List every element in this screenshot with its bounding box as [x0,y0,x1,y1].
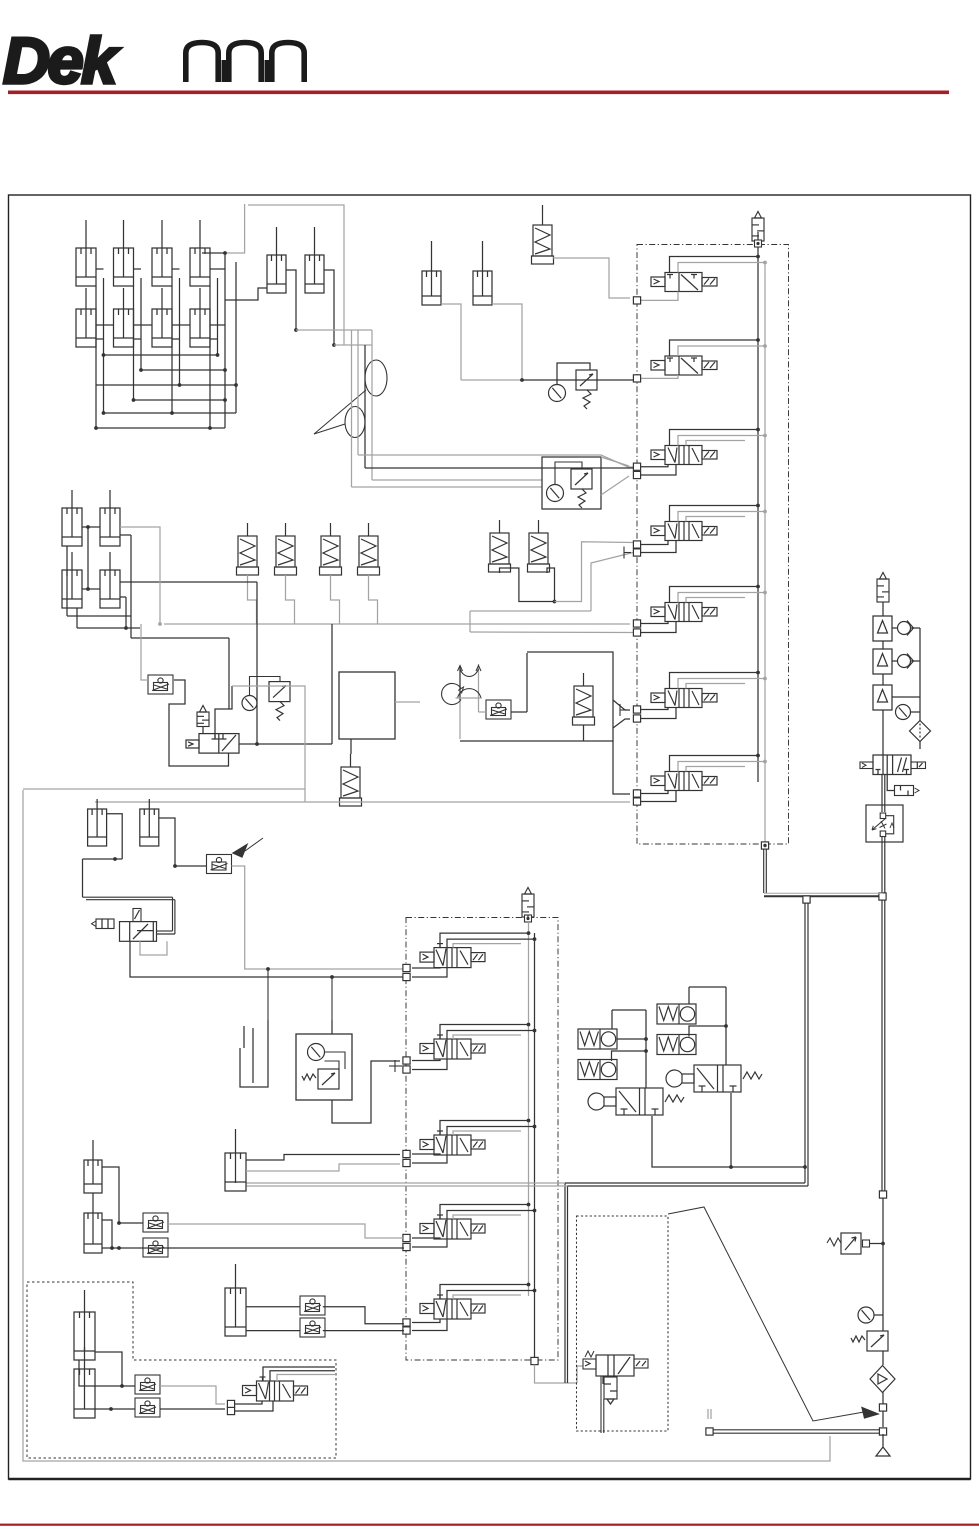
cylinder print head [225,1264,246,1336]
filter separator diamond [870,1366,895,1393]
vacuum switch B [578,1060,617,1080]
cylinder rail A3 [152,220,172,286]
valve bank enclosure dash-dot [637,245,789,845]
solenoid valve W3 [420,1131,485,1155]
vacuum switch D [657,1035,696,1055]
wire [239,743,332,745]
wire to squeegee valve [535,1365,578,1384]
solenoid valve W5 [420,1295,485,1319]
riser to supply [224,253,226,428]
solenoid valve W2 [420,1035,485,1059]
wire [479,711,487,713]
feed wires [440,1285,529,1300]
flow control FC10 [135,1398,160,1417]
relief valve RV2 [197,706,209,727]
wire [441,304,461,380]
feed wires [440,1205,529,1220]
wire [169,680,229,766]
twin hose to table cylinder [246,1182,565,1184]
wire gray [553,258,631,298]
feed wires [670,587,759,603]
cylinder rising table 2 [140,799,159,846]
connector pair [227,1400,234,1407]
main 5-2 valve [873,755,911,775]
solenoid valve V3 [651,446,717,465]
callout ellipse 2 [345,407,365,438]
supply header line [764,892,883,894]
vacuum switch C [657,1004,696,1024]
flow control FC1 [148,675,173,694]
valve hand 3-2 [199,734,239,754]
wire to v5 connector [470,631,633,634]
wire gray [120,527,160,624]
cylinder head lift 1 [267,227,286,293]
gauge G3 [896,705,911,720]
cylinder rail B1 [76,288,96,347]
red header rule [8,91,949,95]
pilot valve small [895,786,914,796]
feed wires [440,1025,529,1040]
booster 1 [873,616,892,641]
wire black out [130,941,404,977]
bank outlet connector [761,842,768,849]
regulator station box 2 [296,1034,352,1100]
wire gray loop [140,941,167,955]
wire from S5 S6 [500,568,555,602]
cylinder board stop 1 [62,490,82,546]
wire to manifold connectors [641,541,668,545]
wire [215,686,232,739]
gray collector bus [164,623,630,625]
booster 3 [873,685,892,710]
flow control FC6 [143,1238,168,1257]
wire [82,526,100,528]
wire to connectors [412,1319,440,1323]
exhaust funnel [876,1434,890,1456]
wire gray feed [141,624,148,680]
solenoid valve V2 [651,356,717,375]
feed wires [440,1121,529,1136]
manifold connector [633,375,640,382]
svg-text:Dek: Dek [3,24,120,97]
wire [350,739,352,754]
cylinder stencil clamp 2 [473,241,492,305]
cylinder support pin 1 [84,1140,102,1193]
wire gray [395,701,420,703]
wire gray riser [225,204,245,253]
valve small solenoid [120,922,157,942]
regulator R2 [269,682,290,721]
twin line down right [881,900,883,1192]
flow control valve FC3 [841,1233,861,1254]
wire bundle vertical [351,330,353,487]
junction dots [102,353,106,357]
twin supply hose [710,1429,879,1431]
black arrow callout [233,845,247,858]
soft-start box [866,805,903,842]
silencer S5 [489,520,511,572]
cylinder support pin 2 [84,1193,102,1253]
relief valve RV3 [877,573,889,603]
wire slant to connector [591,553,633,612]
tooling solenoid valve [243,1377,308,1401]
cylinder rail B3 [152,288,172,347]
black arrow head [862,1408,878,1419]
wire outputs [323,1307,404,1324]
manifold connector pair [633,790,640,797]
regulator R3 [851,1331,888,1351]
wire to valve bank [522,379,633,381]
cylinder rail A4 [190,220,210,286]
supply bus black [757,247,759,782]
cylinder rail B4 [190,288,210,347]
manifold connector pair [633,620,640,627]
manifold connector pair [403,1319,410,1326]
reservoir pot [240,1020,268,1087]
regulator station box [542,457,601,509]
solenoid valve V4 [651,522,717,541]
solenoid valve W1 [420,944,485,968]
feed wires [670,340,759,356]
squeegee solenoid valve [596,1355,634,1376]
wire [611,1010,613,1029]
gauge G2 [242,696,257,711]
callout polyline large [668,1207,864,1421]
supply bus gray [764,262,766,842]
main hose coupling [879,1428,886,1435]
inlet connector [879,1404,886,1411]
wire [246,1306,300,1308]
manifold connector pair [403,964,410,971]
cylinder head lift 2 [305,227,324,293]
manifold connector pair [403,1150,410,1157]
wire to manifold connector [641,375,678,378]
T port mark [395,1060,402,1072]
cylinder board stop 2 [100,490,120,546]
centre bus black [534,933,536,1357]
manifold connector pair [633,541,640,548]
cylinder rail A1 [76,220,96,286]
centre bus gray [528,922,530,1296]
twin line down [600,1376,602,1433]
wire to connectors [412,1059,440,1061]
manifold connector pair [633,706,640,713]
wire [331,1020,333,1034]
cylinder tooling 2 [74,1347,95,1418]
manifold connector pair [633,463,640,470]
wire [95,1352,135,1386]
filter diamond [919,712,921,721]
regulator R4 [302,1069,339,1089]
solenoid valve V7 [651,772,717,791]
wire outputs [160,1386,225,1404]
cylinder board stop 3 [62,552,82,608]
relief valve RV4 [522,888,534,918]
relief valve RV1 [752,212,764,242]
rotary actuator [459,666,461,700]
booster 2 [873,649,892,674]
hose stub gray [707,1409,709,1419]
solenoid valve V1 [651,273,717,292]
wire [102,1167,143,1223]
cylinder screen clamp [225,1129,246,1191]
subsystem outline box [339,672,395,739]
solenoid valve V6 [651,689,717,708]
solenoid valve W4 [420,1215,485,1239]
supply twin line down [881,775,883,812]
wire to manifold connectors [641,708,668,710]
squeegee enclosure dotted [577,1216,669,1431]
feed wires [440,933,529,948]
wire [286,270,296,330]
vacuum switch A [578,1029,617,1049]
solenoid valve V5 [651,603,717,622]
twin line to valve [83,896,173,898]
feed wires [670,430,759,446]
feed wires [670,506,759,522]
silencer S7 [340,754,362,806]
feed wires [670,257,759,273]
check valve 2 [892,660,898,662]
gauge G4 [858,1307,874,1323]
wire [82,859,84,897]
red footer rule [0,1524,979,1526]
cylinder rail A2 [114,220,134,286]
gauge G1 [549,385,566,402]
wire to connectors [412,1238,440,1239]
flow control FC2 [486,700,511,719]
relief valve RV5 [604,1377,617,1399]
wire to manifold connector [641,292,678,301]
wire collector [892,696,920,698]
flow control FC4 [207,855,232,874]
wire to manifold connectors [641,622,668,624]
wire [107,814,123,859]
wire to manifold connectors [641,791,668,794]
feed wires [670,673,759,689]
button valve left [588,1088,684,1115]
cylinder rail B2 [114,288,134,347]
silencer S8 [573,673,595,725]
flow control FC9 [135,1375,160,1394]
wire to connectors [412,1154,440,1155]
wire loop [460,652,613,741]
silencer S4 [358,523,380,575]
silencer S1 [237,523,259,575]
wire [266,967,270,971]
cylinder tooling 1 [74,1290,95,1360]
wire gray loop [248,205,344,330]
cylinder rising table 1 [88,799,107,846]
manifold connector pair [403,1057,410,1064]
twin line to manifold [804,896,806,1183]
main air inlet connector [879,893,886,900]
filter F1 [532,212,554,264]
wire stubs to connectors [613,700,630,710]
wire grid web [103,278,105,413]
wire long to mid valve [120,581,257,583]
feed wires [670,756,759,772]
wire gray drops [248,575,257,624]
wire [246,1155,400,1161]
tooling enclosure dashed [27,1282,336,1458]
callout ellipse 1 [365,360,387,396]
flow control FC8 [300,1318,325,1337]
wire outputs [168,1224,404,1238]
wire to valve [235,1401,263,1404]
twin hose manifold run [565,1182,805,1184]
flow control FC7 [300,1296,325,1315]
centre manifold enclosure dash-dot [406,918,558,1361]
regulator R1 [576,370,597,409]
cylinder stencil clamp 1 [422,241,441,305]
button valve right [666,1065,762,1092]
wire gray out [232,866,405,969]
wire gray return [232,686,305,802]
wire to v7 connectors [613,741,630,794]
silencer S6 [528,520,550,572]
wire to twin hose [235,1182,237,1183]
check valve 1 [892,627,898,629]
manifold connector pair [403,1234,410,1241]
wire [652,1116,805,1167]
flow control FC5 [143,1213,168,1232]
silencer S2 [275,523,297,575]
callout leader lines [314,390,366,434]
manifold connector [633,297,640,304]
feed wires [263,1367,335,1381]
wire to connectors [412,967,440,969]
cylinder board stop 4 [100,552,120,608]
bank outlet connector [531,1357,538,1364]
DEK logo arches icon [186,43,218,83]
wire to manifold connectors [641,465,668,467]
silencer S3 [320,523,342,575]
wire bundle horizontal [352,486,543,488]
